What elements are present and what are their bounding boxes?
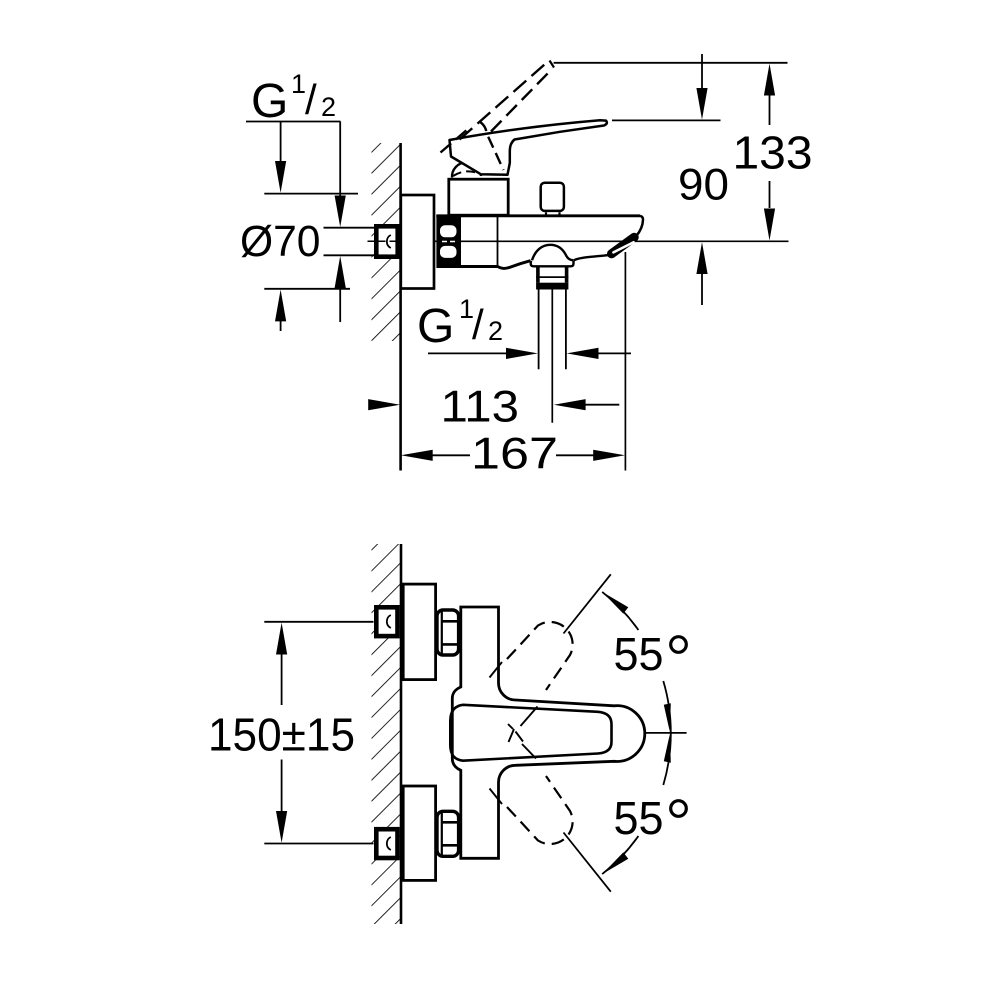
centerline y=241.3 (body seam + 90/133 reference)	[403, 240, 789, 242]
supply elbow square (side view)	[376, 226, 397, 256]
svg-text:G: G	[417, 300, 454, 353]
dash-dot axis marks around pivot	[490, 662, 538, 804]
body top edge	[436, 214, 640, 217]
spout tip extension line	[624, 252, 626, 471]
label G 1/2 (top)	[246, 69, 341, 128]
dim 90	[612, 54, 729, 305]
hose centre extension line	[551, 290, 553, 423]
knob legs	[546, 212, 560, 215]
hose nipple band 2	[538, 277, 567, 283]
supply square lower (plan)	[376, 829, 397, 858]
55-deg ray (lower)	[564, 833, 611, 892]
dim G1/2 (top, supply): stem+arrows	[335, 122, 346, 323]
dashed raised lever tip cap	[550, 61, 555, 68]
dim G1/2 (hose)	[428, 348, 631, 359]
dim Ø70: stem+arrow top	[240, 122, 358, 332]
dashed hidden dome arc	[453, 171, 476, 176]
aerator (spout outlet face)	[612, 237, 635, 254]
escutcheon (side view)	[401, 195, 434, 289]
dashed raised lever back edge	[441, 129, 469, 153]
dome flange	[531, 261, 574, 267]
pivot cross dashes	[508, 724, 523, 742]
escutcheon lower (plan)	[403, 786, 435, 880]
dashed raised lever blade top edge	[460, 61, 550, 140]
supply square upper (plan)	[376, 607, 397, 636]
svg-text:55: 55	[614, 628, 664, 680]
angle arc upper	[602, 592, 671, 733]
dim 133	[554, 63, 813, 241]
svg-text:/: /	[305, 76, 317, 123]
cartridge dome arc	[452, 162, 481, 177]
angle arc lower	[602, 733, 671, 874]
wall line (side view)	[399, 143, 402, 471]
spout underside right of flange	[574, 255, 610, 261]
label G 1/2 (bottom)	[417, 294, 503, 353]
escutcheon upper (plan)	[403, 584, 435, 680]
svg-text:90: 90	[678, 161, 729, 210]
wall hatching (plan)	[372, 544, 402, 924]
hose outer lines	[539, 290, 566, 370]
hand-shower dome	[532, 245, 573, 260]
union nut (side view, shaded)	[436, 216, 461, 269]
body bottom edge + spout underside	[437, 261, 531, 269]
union nut upper (plan)	[437, 610, 459, 655]
internal seam x=497.5	[497, 216, 499, 267]
lever contour (plan)	[450, 705, 611, 761]
svg-text:/: /	[472, 301, 484, 348]
dim 113	[368, 383, 619, 432]
svg-text:55: 55	[614, 792, 664, 844]
dim 167	[401, 429, 625, 478]
union nut lower (plan)	[437, 811, 459, 856]
svg-text:113: 113	[441, 383, 520, 432]
lever L1 (solid blade + wedge)	[450, 120, 607, 175]
svg-text:G: G	[251, 75, 288, 128]
diverter knob	[541, 183, 564, 211]
faucet body (plan)	[452, 607, 644, 858]
55-deg ray (upper)	[564, 574, 611, 633]
svg-text:167: 167	[471, 429, 558, 478]
wall line (plan)	[400, 544, 403, 924]
svg-text:133: 133	[733, 127, 813, 179]
supply ball arc	[387, 235, 391, 248]
svg-text:2: 2	[321, 92, 336, 122]
svg-text:1: 1	[291, 69, 306, 99]
hose nipple dark ring	[536, 283, 568, 290]
svg-text:Ø70: Ø70	[240, 217, 321, 266]
dashed raised lever neck	[480, 122, 504, 171]
horizontal ray at spout tip	[645, 732, 687, 734]
dim 150±15	[208, 622, 374, 844]
hose nipple band 1	[538, 267, 567, 278]
dashed raised lever blade underside	[491, 69, 553, 132]
supply pipe lines (left of square)	[324, 227, 375, 229]
wall hatching (side view)	[372, 143, 401, 341]
svg-text:2: 2	[488, 316, 503, 346]
cartridge housing	[449, 179, 508, 215]
svg-text:150±15: 150±15	[208, 709, 355, 761]
dashed lever capsule (up position)	[507, 622, 573, 690]
dashed lever capsule (down position)	[507, 776, 573, 844]
dashed supply centerline	[368, 240, 402, 242]
